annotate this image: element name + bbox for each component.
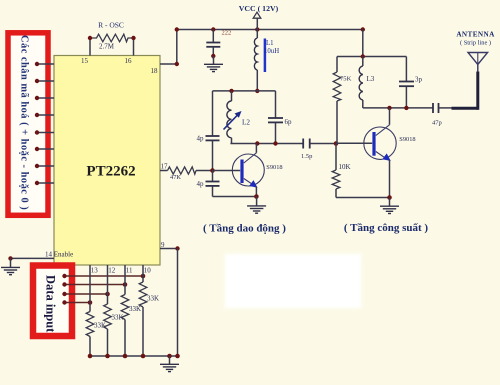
data wire D2 [62,292,109,297]
svg-text:Data input: Data input [44,275,58,333]
capacitor 4p (bottom) [197,171,220,197]
svg-text:L2: L2 [242,119,250,127]
svg-text:222: 222 [222,30,232,37]
svg-text:( Strip line ): ( Strip line ) [460,40,491,47]
svg-text:( Tầng công suất ): ( Tầng công suất ) [344,222,428,234]
svg-text:4p: 4p [197,135,205,143]
svg-text:PT2262: PT2262 [86,164,135,180]
ground (Q2 emitter) [380,198,399,214]
inductor L3 [359,57,375,108]
power stage bottom wire [363,106,433,110]
svg-text:6p: 6p [285,118,293,126]
wire L1 to tank top [255,70,259,93]
resistor R-OSC 2.7M [88,21,136,56]
red box data input [33,266,72,337]
resistor 47K (pin 17) [160,167,215,181]
IC U1 PT2262 [54,56,160,266]
capacitor 4p (top) [197,91,220,171]
svg-text:R - OSC: R - OSC [98,21,124,30]
ground (Q1 emitter) [247,197,266,214]
resistor 33K (pin 13) [86,265,106,356]
ground (222 cap) [204,56,223,72]
svg-text:47K: 47K [170,174,181,181]
capacitor 1.5p [301,139,338,161]
svg-text:75K: 75K [340,76,352,83]
VCC (12V) symbol [239,4,279,30]
resistor 33K (pin 10) [139,265,159,356]
ground rail wire [88,354,180,359]
svg-text:33K: 33K [147,295,159,303]
svg-text:13: 13 [91,267,99,275]
transistor Q2 S9018 [336,108,416,198]
svg-text:16: 16 [125,57,133,65]
svg-text:11: 11 [126,267,133,275]
svg-text:14 Enable: 14 Enable [45,251,73,259]
svg-text:L3: L3 [367,75,375,83]
data wire D0 [62,274,145,279]
svg-text:L1: L1 [266,40,274,47]
capacitor 47p [432,103,452,127]
pin 14 enable wire [8,256,54,260]
pin A1 stub [35,79,54,83]
svg-text:10: 10 [144,267,152,275]
capacitor 222 [206,30,231,60]
data wire D1 [62,282,127,287]
pin A7 stub [35,181,54,185]
svg-text:( Tầng dao động ): ( Tầng dao động ) [203,223,286,235]
svg-text:10uH: 10uH [264,48,279,55]
wire pin18 to VCC rail [160,30,179,67]
svg-text:3p: 3p [415,76,423,84]
capacitor 6p [268,91,292,144]
svg-text:33K: 33K [129,305,141,313]
resistor 10K [332,144,350,198]
resistor 33K (pin 12) [104,265,124,356]
pin A3 stub [35,113,54,117]
capacitor 3p [399,57,423,108]
svg-text:ANTENNA: ANTENNA [456,31,495,39]
tank bottom wire [230,141,303,145]
label ANTENNA [456,31,495,47]
svg-text:2.7M: 2.7M [99,43,115,51]
svg-text:17: 17 [161,163,169,171]
pin A6 stub [35,164,54,168]
svg-text:33K: 33K [94,322,106,330]
strip line (thick) [452,64,478,110]
svg-text:1.5p: 1.5p [301,153,312,160]
pin 9 wire [160,246,180,356]
inductor L1 10uH [254,30,279,73]
svg-text:Các chân mã hoá ( + hoặc - ho: Các chân mã hoá ( + hoặc - hoặc 0 ) [19,35,30,210]
pin A5 stub [35,147,54,151]
pin A2 stub [35,96,54,100]
svg-text:15: 15 [81,57,89,65]
power stage top wires [337,30,406,59]
antenna [468,53,488,65]
pin A4 stub [35,130,54,134]
tank top wire [213,89,276,93]
resistor 33K (pin 11) [121,265,141,356]
transistor Q1 S9018 [213,144,283,197]
VCC rail wire [175,27,365,31]
svg-text:4p: 4p [197,180,205,188]
svg-text:47p: 47p [432,120,442,127]
svg-text:VCC ( 12V): VCC ( 12V) [239,4,279,13]
emitter bottom wire (power) [336,195,392,200]
svg-text:S9018: S9018 [266,164,282,171]
resistor 75K [333,57,351,144]
svg-text:12: 12 [108,267,116,275]
pin A0 stub [35,62,54,66]
ground (rail) [160,356,179,372]
inductor L2 (variable) [224,91,251,144]
data wire D3 [62,300,92,305]
svg-text:18: 18 [151,67,159,75]
ground (enable) [1,258,20,275]
svg-text:10K: 10K [339,163,351,171]
red box encoder pins [8,33,48,216]
svg-text:S9018: S9018 [399,136,415,143]
emitter bottom wire (osc) [213,194,259,199]
